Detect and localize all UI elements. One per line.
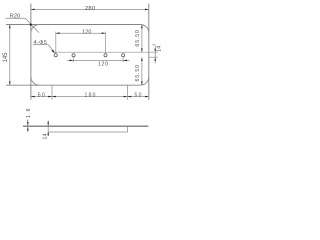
- svg-text:120: 120: [98, 61, 108, 67]
- svg-text:50: 50: [38, 92, 45, 98]
- svg-text:65.50: 65.50: [135, 65, 141, 82]
- svg-text:14: 14: [157, 46, 163, 52]
- svg-text:145: 145: [3, 52, 9, 63]
- svg-text:65.50: 65.50: [135, 30, 141, 47]
- svg-text:50: 50: [135, 92, 142, 98]
- svg-text:120: 120: [82, 29, 91, 35]
- svg-text:280: 280: [85, 6, 95, 12]
- svg-text:R20: R20: [10, 13, 21, 19]
- svg-text:14: 14: [43, 133, 49, 139]
- svg-text:4-Φ5: 4-Φ5: [34, 40, 47, 46]
- svg-text:1.8: 1.8: [26, 108, 32, 118]
- svg-text:180: 180: [85, 92, 96, 98]
